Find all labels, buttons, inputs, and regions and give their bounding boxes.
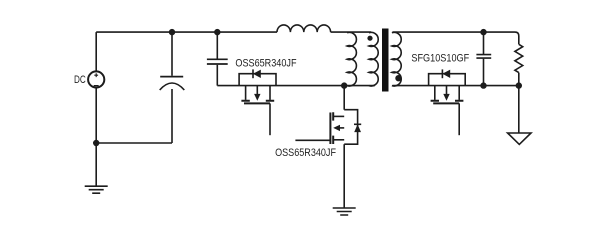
mosfet Q1 gate lead [269,103,271,135]
junction node dot R1 bottom [516,82,522,88]
wire primary bottom rail [217,85,374,87]
resistor R1 bottom lead [518,73,520,86]
mosfet Q3 gate plate [329,113,331,145]
mosfet Q1 source lead [269,86,271,100]
wire bottom return (gnd rail) [96,142,172,144]
transformer T1 secondary phase dot [395,75,401,81]
junction node dot C3 top [480,29,486,35]
transformer T1 primary winding right column [369,32,378,86]
DC source plus sign [94,73,98,77]
mosfet Q3 contact bars [332,112,334,144]
mosfet Q2 source lead [458,86,460,100]
capacitor C1 curved plate [160,83,185,90]
svg-text:SFG10S10GF: SFG10S10GF [411,52,469,64]
mosfet Q1 drain lead [245,86,247,100]
capacitor C1 bottom lead [171,89,173,143]
mosfet Q3 body arrow [340,127,345,129]
wire Q3 source to ground [343,144,345,207]
resistor R1 top corner [515,32,519,44]
diode D3 triangle [354,124,361,132]
mosfet Q2 drain lead [434,86,436,100]
diode D2 cathode bar [441,69,443,78]
ground GND3 triangle [508,133,531,144]
capacitor C1 flat plate [160,76,183,78]
wire top rail left (DC+ to inductor) [96,31,277,33]
diode D1 triangle [253,70,261,78]
DC source V1 circle [88,71,104,87]
capacitor C3 bottom lead [483,59,485,86]
transformer T1 primary winding left column [347,32,356,86]
wire Q3 drain from primary bottom node [343,86,345,110]
capacitor C2 plates [207,59,228,64]
mosfet Q3 source lead [333,139,344,141]
inductor L1 [277,25,331,32]
resistor R1 zigzag [515,44,523,72]
junction node dot C2 top [214,29,220,35]
svg-text:OSS65R340JF: OSS65R340JF [275,147,336,159]
mosfet Q1 body arrow [256,86,258,95]
mosfet Q1 contact bars [241,100,274,102]
ground GND2 [333,208,356,215]
wire DC source top lead [95,32,97,71]
wire secondary bottom rail [393,85,519,87]
mosfet Q1 body-diode loop [239,74,276,86]
wire inductor to transformer primary top [331,31,371,33]
capacitor C3 plates [476,55,491,59]
svg-text:DC: DC [74,74,86,86]
capacitor C3 top lead [483,32,485,54]
wire DC source bottom lead [95,88,97,186]
mosfet Q2 contact bars [431,100,464,102]
transformer T1 secondary winding [392,32,401,86]
junction node dot bottom return [93,140,99,146]
diode D1 cathode bar [252,69,254,78]
DC source minus sign [94,85,99,87]
mosfet Q3 body-diode loop [344,110,357,145]
wire secondary top rail [393,31,516,33]
junction node dot C3 bottom [480,82,486,88]
ground GND1 [85,186,108,193]
capacitor C1 top lead [171,32,173,76]
mosfet Q1 gate plate [244,102,270,104]
mosfet Q3 gate lead [295,139,330,141]
svg-text:OSS65R340JF: OSS65R340JF [235,58,296,70]
capacitor C2 bottom lead [216,65,218,86]
mosfet Q2 body-diode loop [429,74,466,86]
wire output node to ground [518,86,520,133]
capacitor C2 top lead [216,32,218,58]
mosfet Q2 gate lead [458,103,460,135]
transformer T1 core [382,29,389,92]
mosfet Q3 drain lead [333,115,344,117]
diode D3 cathode bar [354,123,361,125]
diode D2 triangle [442,70,450,78]
mosfet Q2 body arrow [446,86,448,95]
junction node dot primary bottom [341,82,347,88]
mosfet Q2 gate plate [433,102,459,104]
junction node dot C1 top [169,29,175,35]
transformer T1 primary phase dot [367,36,372,41]
